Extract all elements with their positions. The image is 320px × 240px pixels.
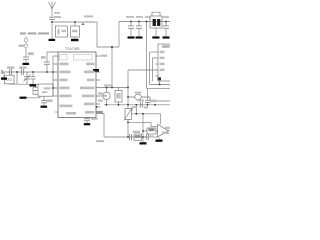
svg-text:TDA7088: TDA7088 — [65, 47, 79, 51]
